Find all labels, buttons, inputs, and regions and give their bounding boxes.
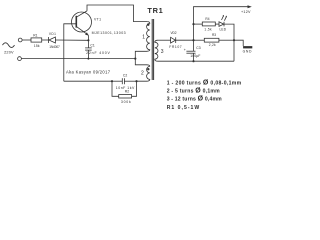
svg-text:1,5k: 1,5k [204,28,212,32]
winding 1 phase dot [147,23,150,26]
wire bottom rail [21,58,135,60]
capacitor C1 [85,47,92,49]
svg-text:C3: C3 [196,46,200,50]
GND pad [243,46,252,48]
resistor R4 [202,22,215,26]
svg-text:R2: R2 [125,89,129,93]
svg-text:C1: C1 [90,44,94,48]
svg-text:2,2k: 2,2k [209,43,216,47]
terminal X2 [18,57,22,61]
svg-text:GND: GND [243,50,252,54]
resistor R1 [31,38,42,42]
wire GND stub [234,40,243,46]
wire base vertical [64,24,77,81]
wire [215,23,219,25]
wire [87,50,89,59]
svg-text:VD1: VD1 [49,32,56,36]
transformer winding 1 [135,22,150,59]
node C2 left [111,80,113,82]
svg-text:220V: 220V [4,50,14,54]
wire emitter down [87,35,89,48]
resistor R2 [112,81,119,96]
wire winding2 top [135,59,150,67]
node C3 bottom [192,60,194,62]
wire [42,39,49,41]
svg-text:100µF: 100µF [190,54,200,58]
svg-text:300k: 300k [121,100,131,104]
resistor R3 [204,38,219,42]
wire winding3 top [158,39,171,41]
node C1-rail [87,58,89,60]
svg-text:MJE13001,13003: MJE13001,13003 [92,31,126,35]
svg-text:15k: 15k [34,44,40,48]
svg-text:TR1: TR1 [147,6,162,15]
LED [219,22,224,27]
svg-text:1 - 200 turns Ø 0,08-0,1mm: 1 - 200 turns Ø 0,08-0,1mm [167,79,242,86]
capacitor C2 [112,80,122,82]
diode VD2 [171,37,176,43]
wire R3 row [194,39,205,41]
terminal X1 [18,38,22,42]
winding 2 phase dot [147,68,149,70]
wire feedback row [64,80,112,82]
svg-text:3: 3 [161,49,164,55]
node C2 right [135,80,137,82]
svg-text:3 - 12 turns Ø 0,4mm: 3 - 12 turns Ø 0,4mm [167,96,222,103]
svg-text:R1: R1 [33,33,37,37]
transformer core [151,19,153,80]
node R3 right [233,39,235,41]
svg-text:1N4007: 1N4007 [49,45,60,49]
svg-text:FR107: FR107 [169,45,182,49]
svg-text:2 - 5 turns Ø 0,1mm: 2 - 5 turns Ø 0,1mm [167,88,220,95]
svg-text:22nF 400V: 22nF 400V [86,51,110,55]
node +12 junction [192,39,194,41]
node LED branch [192,23,194,25]
wire [22,39,31,41]
svg-text:VD2: VD2 [171,31,177,35]
capacitor C3 [193,40,195,51]
svg-text:VT1: VT1 [94,17,101,21]
wire riser and top rail [194,7,249,41]
wire [219,39,234,41]
svg-text:+12V: +12V [241,10,251,14]
svg-text:R4: R4 [205,17,209,21]
wire [55,39,88,41]
AC source symbol [3,43,15,48]
wire bottom right rail [158,60,234,62]
arrow +12V [248,5,252,8]
node fork [134,58,136,60]
svg-text:C2: C2 [123,73,127,77]
transistor VT1 [72,12,92,32]
node emitter junction [87,39,89,41]
wire [194,23,203,25]
svg-text:Aka Kasyan 09/2017: Aka Kasyan 09/2017 [66,69,111,74]
svg-text:+: + [184,48,186,52]
svg-text:2: 2 [141,70,144,76]
transformer winding 3 [155,40,158,61]
svg-text:R3: R3 [212,33,216,37]
diode VD1 [48,37,50,43]
svg-text:LED: LED [220,27,227,31]
wire [224,24,234,61]
wire [176,39,194,41]
transformer winding 2 [137,66,150,81]
svg-text:R1 0,5-1W: R1 0,5-1W [167,105,200,111]
svg-text:1: 1 [142,34,145,40]
